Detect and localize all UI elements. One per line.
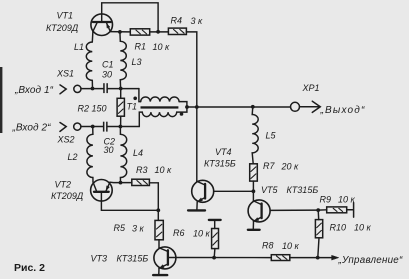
transistor VT2	[91, 180, 113, 202]
svg-text:VT1: VT1	[57, 11, 74, 21]
svg-text:„Выход“: „Выход“	[320, 105, 366, 116]
resistor R6 with terminal bar	[209, 220, 221, 258]
wire C1 to T1	[108, 88, 139, 90]
svg-text:10 к: 10 к	[193, 229, 211, 239]
junction R10 control	[316, 256, 320, 260]
junction T1 output	[185, 105, 189, 109]
wire R2 bottom lead	[120, 116, 122, 126]
junction R1-R4-base	[156, 30, 160, 34]
wire VT4 base	[214, 190, 254, 192]
terminal bar R9	[347, 203, 354, 218]
svg-text:R1: R1	[135, 42, 147, 52]
wire C2 to T1	[108, 126, 140, 128]
svg-text:„Вход 2“: „Вход 2“	[12, 123, 52, 134]
svg-text:L5: L5	[266, 131, 277, 141]
svg-text:10 к: 10 к	[155, 165, 173, 175]
wire R7 bottom lead	[252, 181, 254, 191]
inductor L2	[87, 127, 93, 183]
svg-text:R6: R6	[173, 228, 185, 238]
connector XP1 circle	[291, 102, 300, 111]
wire VT5 base	[270, 209, 318, 211]
resistor R8	[271, 255, 290, 261]
wire R3 left lead	[121, 182, 132, 184]
transistor VT3	[153, 247, 176, 275]
svg-text:L3: L3	[132, 57, 142, 67]
svg-text:R9: R9	[320, 195, 332, 205]
transistor VT1	[91, 14, 113, 36]
wire VT1 emitter row	[110, 31, 130, 33]
wire VT2 emitter to junction	[110, 181, 121, 183]
svg-text:3 к: 3 к	[191, 16, 204, 26]
inductor L3	[120, 32, 126, 89]
connector XS1 arrow	[60, 85, 66, 94]
svg-text:30: 30	[104, 145, 114, 155]
svg-text:30: 30	[102, 70, 112, 80]
junction supply-output cross	[195, 105, 199, 109]
svg-text:10 к: 10 к	[354, 223, 372, 233]
arrow control output	[332, 255, 339, 260]
wire R9 left lead	[318, 209, 327, 211]
junction L4-R3-VT2	[119, 181, 123, 185]
connector XP1 arrow	[300, 101, 321, 112]
page edge mark left	[0, 67, 2, 133]
svg-text:Т1: Т1	[127, 102, 138, 112]
svg-text:ХР1: ХР1	[302, 83, 320, 93]
svg-text:L4: L4	[133, 148, 143, 158]
svg-text:VT5: VT5	[261, 185, 279, 195]
junction base-R5	[156, 208, 160, 212]
svg-text:VT4: VT4	[215, 147, 232, 157]
svg-text:R2 150: R2 150	[78, 104, 107, 114]
resistor R1	[130, 29, 149, 35]
capacitor C2	[103, 122, 108, 132]
transformer T1	[133, 89, 187, 127]
inductor L4	[120, 127, 126, 183]
resistor R5	[155, 220, 163, 239]
svg-text:10 к: 10 к	[282, 241, 300, 251]
inductor L1	[86, 31, 93, 88]
resistor R10	[315, 210, 322, 258]
junction C2-R2-L4	[119, 125, 123, 129]
wire R3 right corner down	[149, 183, 158, 221]
svg-text:КТ209Д: КТ209Д	[51, 191, 84, 201]
wire output line	[187, 106, 291, 108]
svg-text:„Управление“: „Управление“	[338, 255, 404, 266]
resistor R2	[117, 98, 124, 116]
junction L2 input	[91, 125, 95, 129]
svg-text:КТ209Д: КТ209Д	[46, 23, 79, 33]
capacitor C1	[103, 83, 108, 93]
svg-text:20 к: 20 к	[281, 161, 300, 171]
junction C1-R2-L3	[119, 87, 123, 91]
svg-text:L1: L1	[74, 42, 84, 52]
connector XS1 circle	[74, 85, 81, 92]
junction R6 control	[212, 256, 216, 260]
junction L1 input	[91, 87, 95, 91]
resistor R9	[327, 207, 347, 213]
svg-text:VT2: VT2	[55, 180, 72, 190]
resistor R3	[132, 179, 150, 185]
wire R1 to R4	[150, 31, 169, 33]
svg-text:XS2: XS2	[57, 135, 75, 145]
wire VT2 base down and right	[101, 193, 158, 210]
inductor L5	[252, 107, 258, 164]
connector XS2 arrow	[60, 123, 66, 132]
wire supply rail vertical to VT4 collector	[196, 107, 198, 181]
svg-text:R8: R8	[262, 241, 274, 251]
svg-text:3 к: 3 к	[132, 223, 145, 233]
wire R5 bottom to VT3 collector	[158, 240, 160, 248]
wire VT1 base feedback top	[102, 3, 158, 32]
svg-text:КТ315Б: КТ315Б	[204, 158, 236, 168]
svg-text:„Вход 1“: „Вход 1“	[14, 85, 54, 96]
junction emitter-L3	[118, 30, 122, 34]
transistor VT4	[188, 180, 214, 210]
svg-text:R4: R4	[171, 16, 183, 26]
wire R2 top lead	[120, 89, 122, 99]
connector XS2 circle	[74, 123, 81, 130]
resistor R7	[250, 164, 258, 181]
svg-text:R3: R3	[136, 165, 148, 175]
junction R9-R10-base	[316, 208, 320, 212]
svg-text:Рис. 2: Рис. 2	[14, 262, 45, 274]
svg-text:R7: R7	[263, 161, 275, 171]
resistor R4	[168, 28, 186, 34]
wire R4 to supply rail corner	[186, 32, 196, 107]
wire control line right with junction	[290, 257, 333, 259]
transistor VT5	[248, 200, 270, 230]
svg-text:R10: R10	[330, 222, 347, 232]
wire input 1	[81, 88, 103, 90]
junction L5 tap	[251, 105, 255, 109]
svg-text:R5: R5	[114, 223, 126, 233]
wire VT3 base control line	[168, 257, 271, 259]
svg-text:10 к: 10 к	[153, 42, 171, 52]
svg-text:КТ315Б: КТ315Б	[117, 254, 149, 264]
svg-text:C1: C1	[102, 60, 114, 70]
wire input 2	[81, 126, 103, 128]
svg-text:VT3: VT3	[91, 254, 108, 264]
wire VT5 collector up	[252, 191, 254, 201]
svg-text:L2: L2	[68, 152, 78, 162]
svg-text:КТ315Б: КТ315Б	[287, 185, 319, 195]
junction R7-VT4-VT5	[252, 189, 256, 193]
svg-text:XS1: XS1	[56, 68, 74, 78]
